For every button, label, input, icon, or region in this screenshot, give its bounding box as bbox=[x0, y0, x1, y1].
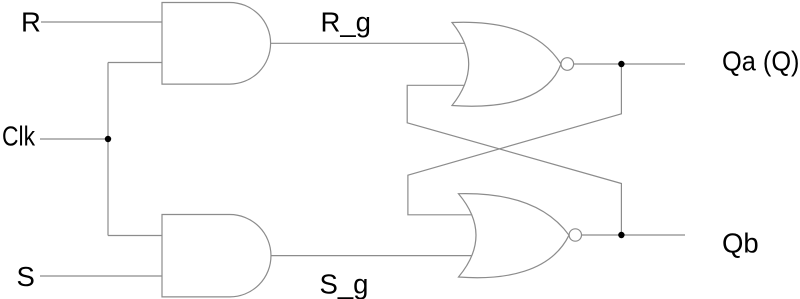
wire S_g net bbox=[271, 255, 472, 257]
node junction on Clk bbox=[105, 136, 111, 142]
wire Qb output bbox=[582, 234, 686, 236]
svg-text:Clk: Clk bbox=[2, 121, 35, 152]
svg-text:Qa (Q): Qa (Q) bbox=[722, 46, 800, 77]
wire Clk to bottom AND bbox=[108, 235, 162, 237]
NOR gate U4 (bottom) bbox=[459, 194, 570, 278]
wire Clk to top AND bbox=[108, 62, 162, 64]
svg-text:R_g: R_g bbox=[321, 7, 371, 38]
svg-text:S: S bbox=[17, 261, 35, 292]
wire Qa output bbox=[574, 63, 685, 65]
bubble of U3 bbox=[561, 58, 574, 71]
node junction Qb bbox=[618, 232, 624, 238]
wire R input bbox=[41, 21, 162, 23]
AND gate U1 (top) bbox=[162, 3, 271, 85]
svg-text:R: R bbox=[21, 7, 41, 38]
node junction Qa bbox=[618, 61, 624, 67]
wire feedback Qb to U3 input bbox=[407, 85, 621, 235]
svg-text:Qb: Qb bbox=[722, 228, 759, 259]
bubble of U4 bbox=[569, 229, 581, 241]
wire feedback Qa to U4 input: vertical drop bbox=[408, 64, 622, 215]
wire Clk input bbox=[40, 138, 108, 140]
wire Clk vertical bus bbox=[107, 63, 109, 236]
AND gate U2 (bottom) bbox=[162, 215, 271, 297]
NOR gate U3 (top) bbox=[452, 22, 561, 106]
wire R_g net bbox=[271, 42, 465, 44]
svg-text:S_g: S_g bbox=[320, 269, 369, 299]
wire S input bbox=[40, 275, 162, 277]
